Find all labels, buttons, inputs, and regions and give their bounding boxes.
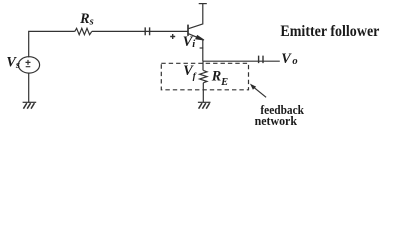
capacitor C2 (output coupling ticks) [259, 56, 263, 64]
plus sign (Vi polarity) [170, 34, 175, 39]
wire: source top to resistor [29, 31, 75, 57]
emitter arrowhead [196, 36, 204, 40]
svg-text:RE: RE [211, 68, 228, 88]
transistor Q1 base bar [187, 25, 189, 36]
voltage source Vs [18, 57, 39, 73]
wire: emitter node down to RE [202, 61, 204, 70]
svg-text:Vf: Vf [183, 63, 196, 82]
wire: RE to ground [202, 83, 204, 102]
feedback network dashed box [161, 63, 248, 90]
wire: emitter node to output [203, 60, 280, 62]
supply terminal T-bar [199, 3, 207, 5]
minus sign (Vi polarity) [200, 47, 204, 49]
ground (left) [23, 102, 37, 108]
svg-text:Emitter follower: Emitter follower [280, 23, 379, 40]
svg-text:Rs: Rs [79, 11, 94, 27]
resistor Rs [75, 28, 92, 34]
transistor Q1 emitter [188, 34, 202, 62]
Vs plus-minus symbol [26, 60, 31, 67]
transistor Q1 collector [188, 4, 202, 29]
wire: resistor to base [92, 30, 188, 32]
svg-text:Vo: Vo [281, 51, 297, 67]
svg-text:network: network [255, 114, 298, 126]
arrow to feedback box [253, 87, 266, 97]
resistor RE [200, 70, 207, 82]
capacitor C1 (input coupling ticks) [145, 27, 149, 35]
svg-text:Vs: Vs [6, 55, 20, 71]
wire: source bottom to ground [28, 73, 30, 102]
ground (right, under RE) [198, 102, 211, 108]
